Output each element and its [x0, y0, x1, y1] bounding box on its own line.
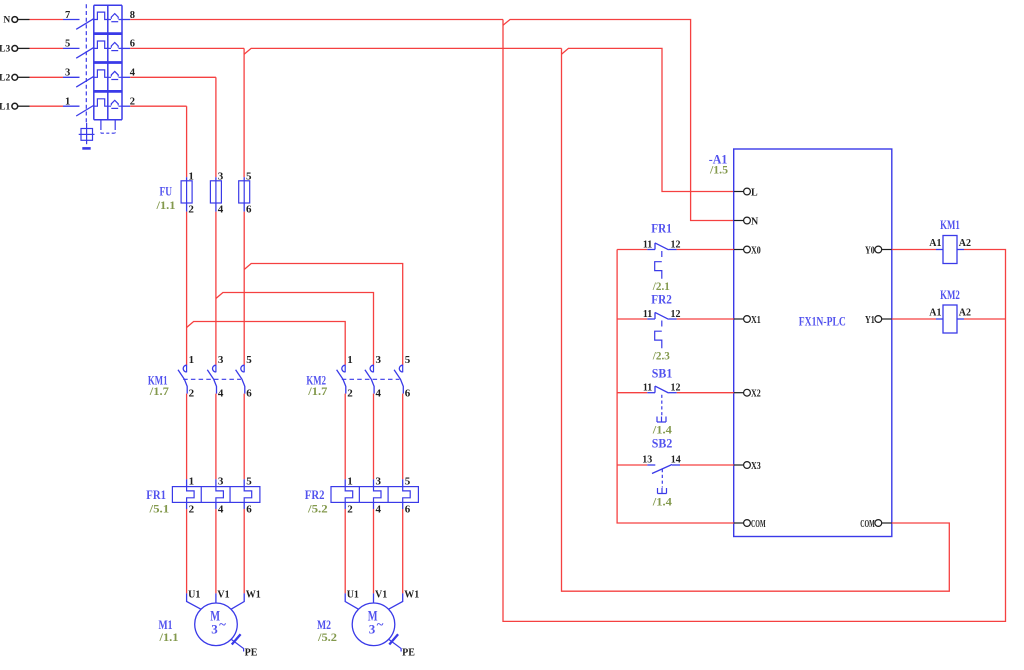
svg-text:KM2: KM2 — [940, 287, 960, 302]
svg-text:6: 6 — [246, 204, 252, 216]
svg-text:A2: A2 — [959, 238, 971, 249]
svg-text:/2.3: /2.3 — [652, 349, 670, 363]
wire heater down — [344, 509, 346, 593]
svg-text:KM1: KM1 — [940, 217, 960, 232]
wire Y output to coil KM2 — [892, 318, 936, 320]
svg-text:5: 5 — [65, 39, 70, 50]
wire contact down — [402, 394, 404, 480]
svg-text:FR1: FR1 — [651, 221, 672, 236]
svg-text:4: 4 — [218, 503, 224, 515]
breaker overcurrent release symbol — [94, 12, 108, 19]
motor M1 wires — [187, 593, 201, 609]
wire heater down — [186, 509, 188, 593]
svg-text:/1.1: /1.1 — [158, 630, 178, 644]
breaker pole output stub — [122, 105, 130, 107]
svg-text:U1: U1 — [188, 590, 200, 601]
breaker QF pole 2 blade — [76, 47, 94, 58]
svg-text:~: ~ — [219, 616, 226, 631]
svg-text:/5.2: /5.2 — [317, 630, 337, 644]
svg-text:1: 1 — [188, 170, 194, 182]
breaker pole output stub — [122, 47, 130, 49]
wire branch to KM2 pole 1 — [187, 322, 346, 366]
wire heater down — [373, 509, 375, 593]
svg-text:/1.4: /1.4 — [652, 495, 672, 509]
svg-text:6: 6 — [246, 503, 252, 515]
contactor KM2 contact 1-2 — [342, 365, 345, 372]
wire coil KM1 return loop to N — [503, 20, 1006, 622]
breaker overcurrent release symbol — [94, 99, 108, 106]
svg-text:2: 2 — [347, 388, 353, 400]
wire N row to PLC (with junction at VN) — [130, 19, 503, 21]
svg-text:12: 12 — [671, 309, 681, 320]
breaker QF pole 4 blade — [76, 105, 94, 116]
svg-text:COM: COM — [860, 519, 875, 530]
wire L1 to breaker — [30, 105, 64, 107]
contactor KM1 linkage (dashed) — [183, 378, 241, 380]
wire contact down — [215, 394, 217, 480]
svg-text:N: N — [3, 16, 10, 26]
wire L1 row to fuse 1 — [130, 105, 186, 107]
svg-text:3: 3 — [218, 475, 224, 487]
breaker thermal release symbol — [108, 105, 122, 107]
SB1 actuator (dashed link + button) — [661, 395, 663, 416]
svg-text:1: 1 — [189, 475, 195, 487]
breaker pole output stub — [122, 19, 130, 21]
NO contact SB2 — [647, 464, 655, 466]
svg-text:1: 1 — [347, 475, 353, 487]
contactor KM2 contact 5-6 — [399, 365, 402, 372]
svg-text:4: 4 — [376, 388, 382, 400]
svg-text:X0: X0 — [751, 245, 761, 256]
wire coil KM2 to return bus — [964, 318, 1006, 320]
svg-text:/5.2: /5.2 — [307, 502, 328, 516]
svg-text:Y0: Y0 — [865, 245, 875, 256]
wire bus to contact — [617, 392, 647, 394]
svg-text:A2: A2 — [959, 307, 971, 318]
wire bus to SB2 — [617, 464, 647, 466]
wire contact down — [186, 394, 188, 480]
svg-text:5: 5 — [246, 170, 252, 182]
svg-text:5: 5 — [246, 475, 252, 487]
svg-text:2: 2 — [347, 503, 353, 515]
svg-text:3: 3 — [369, 622, 376, 637]
breaker overcurrent release symbol — [94, 70, 108, 77]
svg-text:12: 12 — [671, 239, 681, 250]
svg-text:W1: W1 — [246, 590, 261, 601]
contactor KM2 linkage (dashed) — [342, 378, 400, 380]
svg-text:4: 4 — [218, 204, 224, 216]
svg-text:U1: U1 — [347, 590, 359, 601]
motor M2 PE connection — [388, 639, 401, 652]
PLC pin X0 — [734, 249, 744, 251]
svg-text:PE: PE — [402, 647, 415, 658]
circuit breaker QF mechanical link (dashed) — [85, 4, 87, 123]
thermal overload FR1 heater 1-2 — [186, 479, 188, 486]
wire N to breaker — [30, 19, 64, 21]
fuse FU pole 1 — [186, 177, 188, 181]
wire fuse down — [215, 212, 217, 365]
svg-text:3: 3 — [376, 354, 382, 366]
svg-text:X1: X1 — [751, 315, 761, 326]
PLC pin COM — [734, 522, 744, 524]
breaker QF pole 1 blade — [76, 18, 94, 29]
svg-text:A1: A1 — [929, 238, 941, 249]
svg-text:L3: L3 — [0, 45, 10, 55]
PLC pin X2 — [734, 392, 744, 394]
svg-text:X2: X2 — [751, 389, 761, 400]
svg-text:COM: COM — [751, 519, 766, 530]
contactor KM2 contact 3-4 — [370, 365, 373, 372]
svg-text:V1: V1 — [375, 590, 387, 601]
breaker thermal release symbol — [108, 47, 122, 49]
svg-text:FU: FU — [160, 184, 173, 199]
svg-text:11: 11 — [643, 383, 652, 394]
wire PLC output COM to L3 — [562, 48, 950, 591]
thermal overload FR2 heater 1-2 — [344, 479, 346, 486]
wire contact down — [243, 394, 245, 480]
svg-text:3: 3 — [218, 170, 224, 182]
wire input common bus — [617, 250, 734, 524]
svg-text:L1: L1 — [0, 102, 10, 112]
PLC pin X3 — [734, 464, 744, 466]
svg-text:A1: A1 — [929, 307, 941, 318]
thermal overload FR2 body — [331, 487, 418, 503]
svg-text:/1.7: /1.7 — [307, 384, 327, 398]
NC contact — [647, 318, 655, 320]
motor M2 wires — [345, 593, 358, 609]
wire L3 to breaker — [30, 47, 64, 49]
svg-text:~: ~ — [377, 616, 384, 631]
breaker operator bottom bar — [82, 147, 90, 150]
wire L2 row to fuse 2 — [130, 76, 216, 78]
svg-text:13: 13 — [642, 455, 652, 466]
svg-text:FX1N-PLC: FX1N-PLC — [799, 314, 846, 329]
svg-text:14: 14 — [671, 455, 681, 466]
motor M1 body — [195, 603, 238, 646]
wire Y output to coil KM1 — [892, 249, 936, 251]
svg-text:/1.1: /1.1 — [155, 198, 175, 212]
PLC pin COM — [875, 520, 882, 527]
contactor KM1 contact 5-6 — [241, 365, 244, 372]
svg-text:W1: W1 — [404, 590, 419, 601]
svg-text:1: 1 — [347, 354, 353, 366]
wire heater down — [243, 509, 245, 593]
motor M1 PE connection — [231, 639, 244, 652]
svg-text:2: 2 — [189, 503, 195, 515]
PLC pin Y0 — [875, 246, 882, 253]
svg-text:11: 11 — [643, 239, 652, 250]
svg-text:FR1: FR1 — [146, 487, 166, 502]
svg-text:N: N — [751, 216, 759, 227]
svg-text:7: 7 — [65, 10, 70, 21]
motor M2 body — [352, 603, 395, 646]
wire SB2 to PLC — [680, 464, 734, 466]
svg-text:V1: V1 — [217, 590, 229, 601]
svg-text:5: 5 — [246, 354, 252, 366]
SB2 actuator (dashed link + button) — [661, 469, 663, 488]
PLC pin N — [734, 220, 744, 222]
contactor KM1 contact 1-2 — [183, 365, 186, 372]
wire fuse down — [243, 212, 245, 365]
thermal overload FR1 heater 3-4 — [215, 479, 217, 486]
svg-text:SB2: SB2 — [652, 436, 673, 451]
wire branch to KM2 pole 3 — [216, 293, 374, 366]
PLC U1 body FX1N — [734, 149, 892, 537]
svg-text:PE: PE — [245, 647, 258, 658]
svg-text:4: 4 — [376, 503, 382, 515]
svg-text:12: 12 — [671, 383, 681, 394]
svg-text:6: 6 — [405, 388, 411, 400]
wire fuse down — [186, 212, 188, 365]
fuse FU pole 3 — [215, 177, 217, 181]
wire contact to PLC — [677, 249, 734, 251]
svg-text:/1.5: /1.5 — [709, 163, 728, 177]
wire contact to PLC — [677, 318, 734, 320]
svg-text:6: 6 — [405, 503, 411, 515]
NC contact — [647, 249, 655, 251]
svg-text:1: 1 — [189, 354, 195, 366]
wire contact to PLC — [677, 392, 734, 394]
svg-text:SB1: SB1 — [652, 366, 673, 381]
wire fuse drops — [186, 106, 188, 177]
svg-text:/1.7: /1.7 — [149, 384, 169, 398]
breaker QF pole 3 blade — [76, 76, 94, 87]
svg-text:Y1: Y1 — [865, 315, 875, 326]
svg-text:3: 3 — [218, 354, 224, 366]
fuse FU pole 5 — [243, 177, 245, 181]
wire contact down — [373, 394, 375, 480]
wire branch to KM2 pole 5 — [244, 264, 403, 366]
svg-text:3: 3 — [65, 68, 70, 79]
svg-text:3: 3 — [376, 475, 382, 487]
svg-text:3: 3 — [211, 622, 218, 637]
wire heater down — [402, 509, 404, 593]
svg-text:11: 11 — [643, 309, 652, 320]
thermal overload FR1 body — [172, 487, 260, 503]
svg-text:2: 2 — [188, 204, 194, 216]
thermal overload FR2 heater 5-6 — [402, 479, 404, 486]
NC contact — [647, 392, 655, 394]
svg-text:X3: X3 — [751, 461, 761, 472]
wire bus to contact — [617, 318, 647, 320]
breaker trip unit linkage (dashed) — [100, 120, 102, 127]
thermal overload FR1 heater 5-6 — [243, 479, 245, 486]
breaker pole output stub — [122, 76, 130, 78]
wire contact down — [344, 394, 346, 480]
wire bus to contact — [617, 249, 647, 251]
svg-text:5: 5 — [405, 475, 411, 487]
breaker operator (test box with cross) — [81, 129, 93, 141]
wire L2 to breaker — [30, 76, 64, 78]
thermal overload FR2 heater 3-4 — [373, 479, 375, 486]
breaker thermal release symbol — [108, 76, 122, 78]
svg-text:FR2: FR2 — [651, 292, 672, 307]
wire heater down — [215, 509, 217, 593]
PLC pin X1 — [734, 318, 744, 320]
svg-text:1: 1 — [65, 97, 70, 108]
breaker thermal release symbol — [108, 19, 122, 21]
breaker QF body — [93, 5, 95, 119]
breaker overcurrent release symbol — [94, 41, 108, 48]
svg-text:4: 4 — [218, 388, 224, 400]
FR1 thermal release symbol — [661, 251, 663, 257]
PLC pin L — [734, 191, 744, 193]
svg-text:L2: L2 — [0, 74, 10, 84]
svg-text:2: 2 — [189, 388, 195, 400]
svg-text:L: L — [751, 187, 758, 198]
svg-text:/5.1: /5.1 — [148, 502, 169, 516]
svg-text:5: 5 — [405, 354, 411, 366]
PLC pin Y1 — [875, 316, 882, 323]
svg-text:/1.4: /1.4 — [652, 423, 672, 437]
svg-text:6: 6 — [246, 388, 252, 400]
contactor KM1 contact 3-4 — [213, 365, 216, 372]
svg-text:FR2: FR2 — [305, 487, 325, 502]
FR2 thermal release symbol — [661, 321, 663, 327]
wire L3 row: to fuse 3, PLC L pin (junctions) — [130, 47, 244, 49]
